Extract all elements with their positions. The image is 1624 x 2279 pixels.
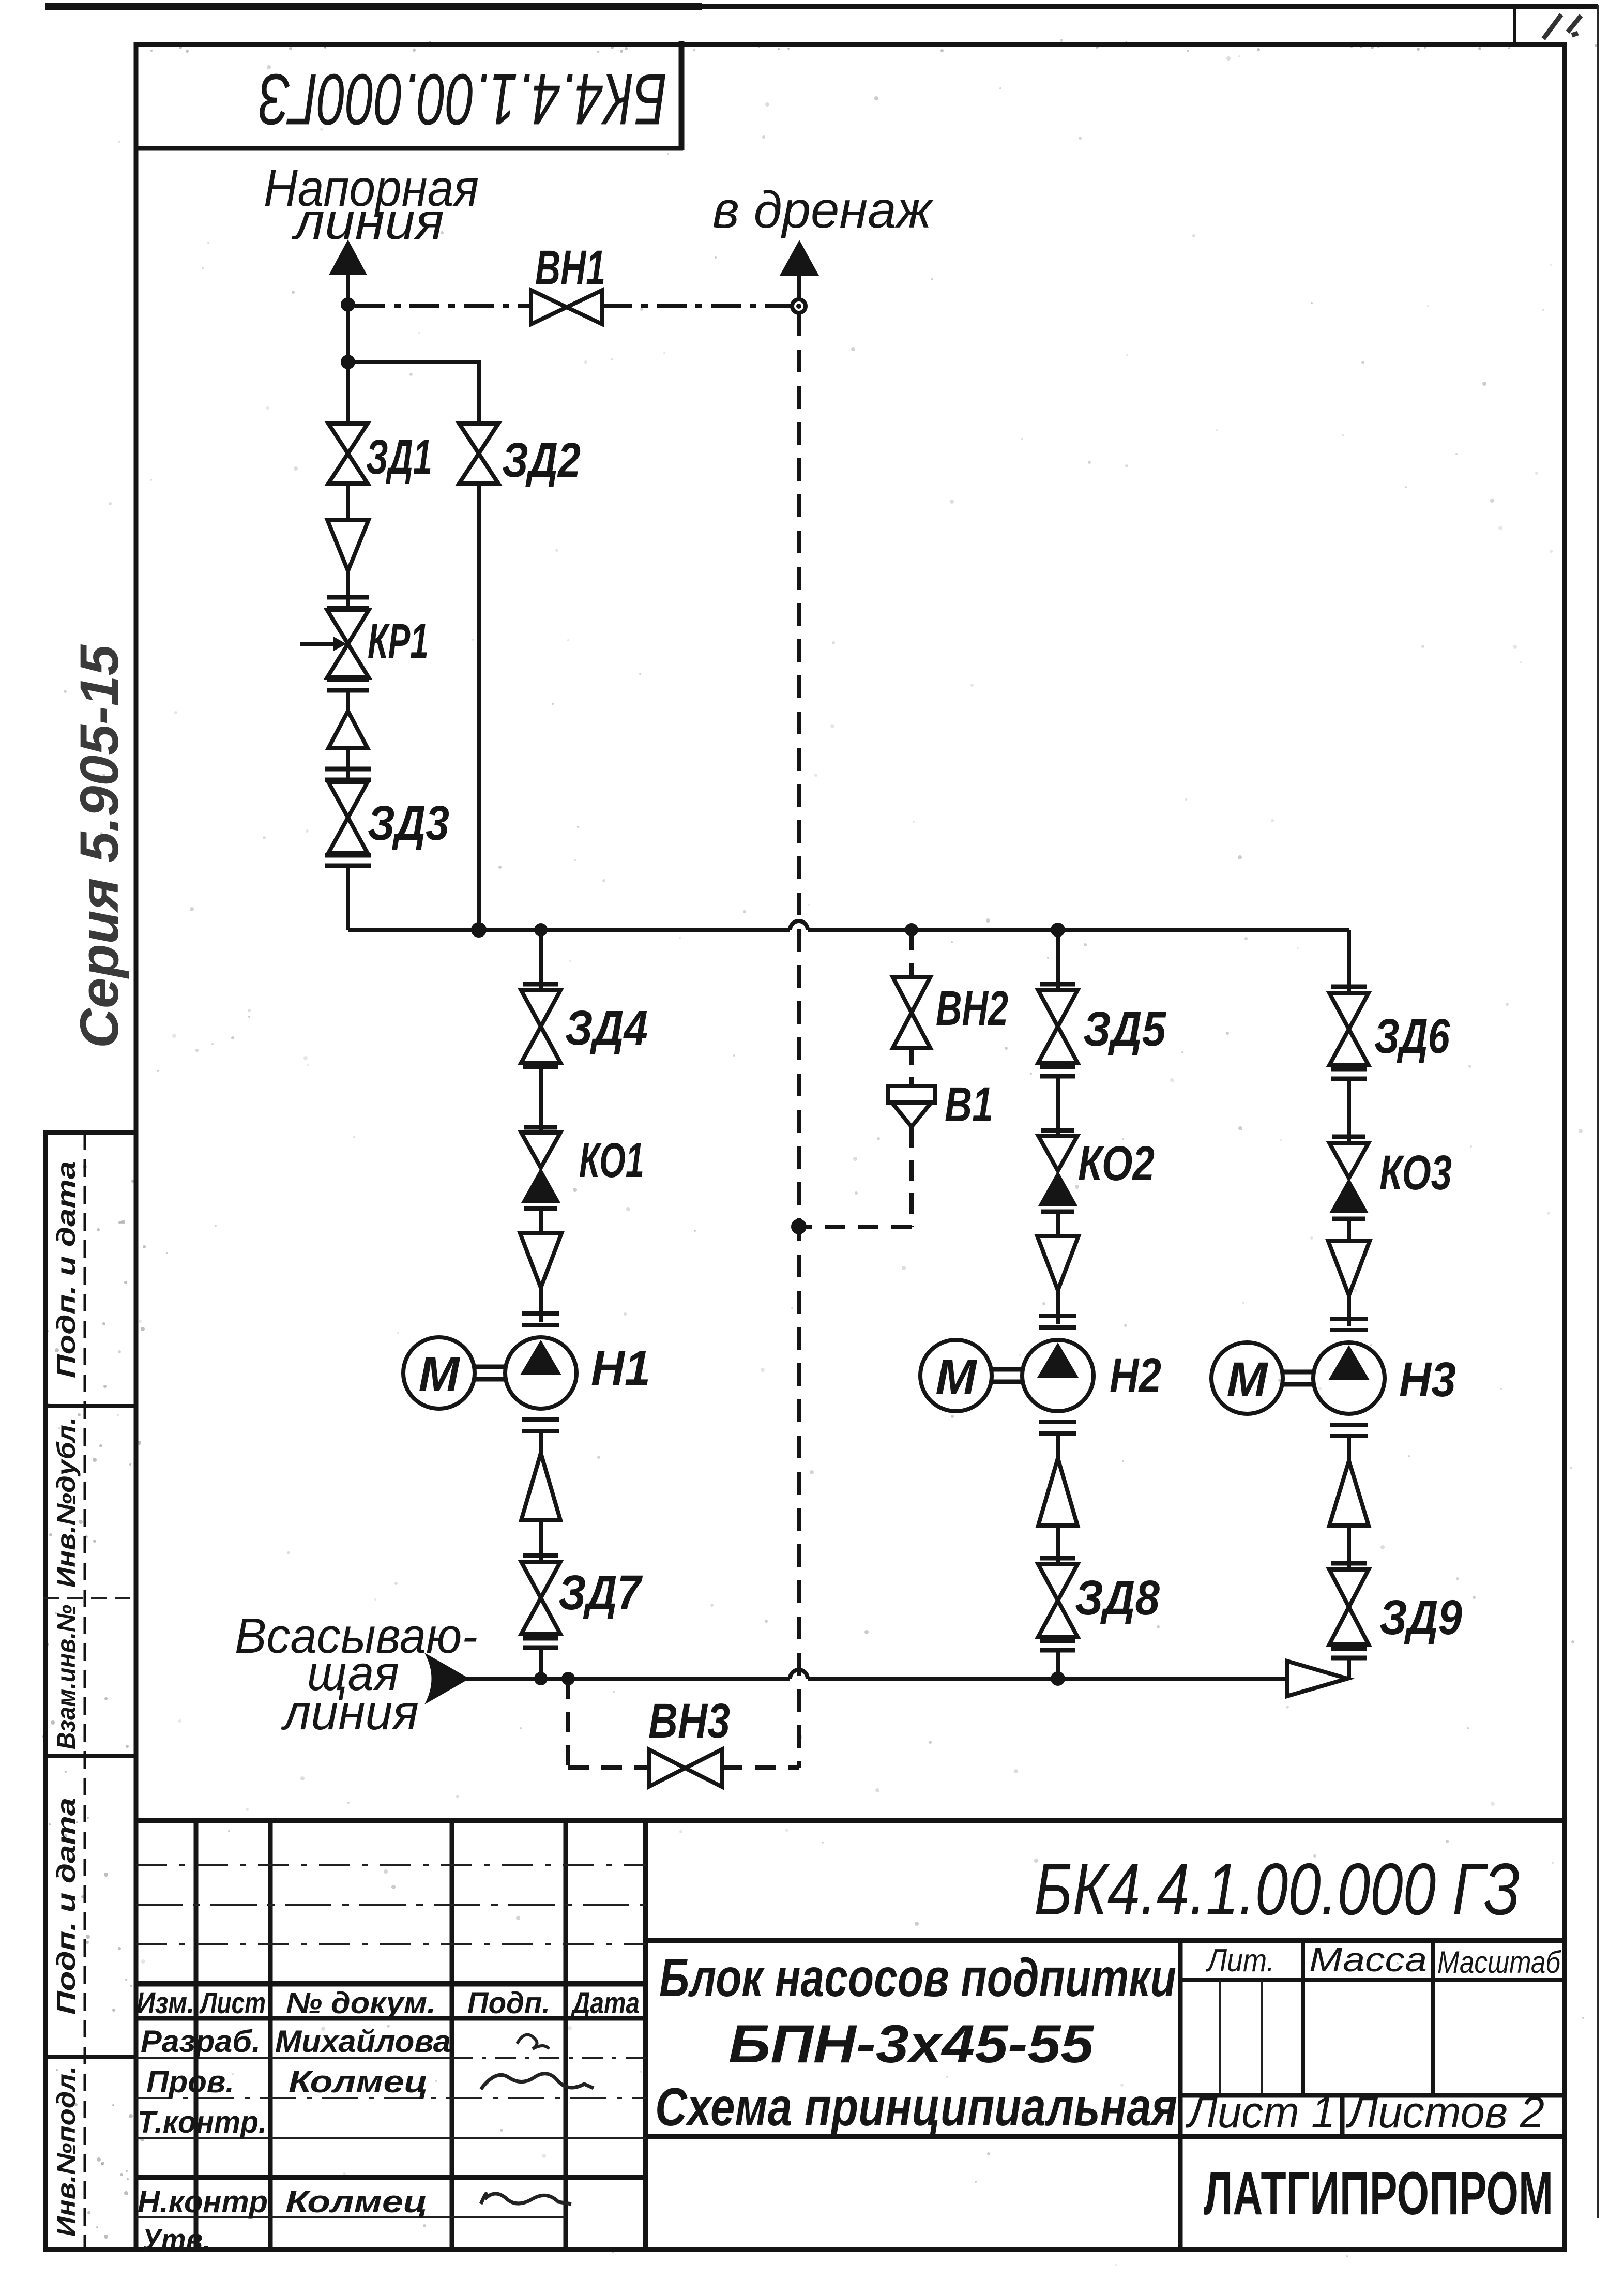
svg-text:КР1: КР1 bbox=[368, 614, 429, 669]
wire В1 down dashed bbox=[909, 1127, 914, 1227]
svg-text:Н3: Н3 bbox=[1399, 1352, 1456, 1407]
document number БК4.4.1.00.000 ГЗ bbox=[1034, 1848, 1520, 1930]
reducer cone up bbox=[328, 711, 368, 748]
label Напорная линия bbox=[264, 159, 479, 250]
arrow КР1 actuator bbox=[300, 637, 346, 651]
shaft M2-Н2 bbox=[992, 1369, 1022, 1382]
svg-text:ВН1: ВН1 bbox=[535, 240, 605, 295]
label КО2 bbox=[1078, 1136, 1155, 1191]
wire ЗД3 to header bbox=[346, 866, 350, 930]
valve КР1 flange bars top bbox=[327, 597, 369, 608]
valve ЗД9 bbox=[1329, 1569, 1369, 1644]
svg-text:ВН2: ВН2 bbox=[936, 981, 1008, 1036]
svg-text:Утв.: Утв. bbox=[142, 2223, 210, 2257]
valve ЗД3 flange bars top bbox=[325, 769, 371, 780]
svg-text:Масштаб: Масштаб bbox=[1437, 1945, 1561, 1980]
left margin stamp column bbox=[43, 1133, 136, 2250]
label Подп. и дата (upper) bbox=[52, 1161, 81, 1378]
wire ВН2 branch dashed bbox=[909, 930, 914, 977]
title block top line bbox=[136, 1818, 1565, 1823]
svg-text:Дата: Дата bbox=[570, 1986, 640, 2020]
label ВН3 bbox=[648, 1694, 730, 1748]
valve ЗД3 bbox=[328, 782, 368, 853]
svg-text:Пров.: Пров. bbox=[146, 2064, 234, 2099]
label ВН2 bbox=[936, 981, 1008, 1036]
revision table empty row lines bbox=[136, 1865, 646, 1944]
svg-text:Изм.: Изм. bbox=[136, 1986, 194, 2020]
pump Н1 bbox=[505, 1337, 576, 1409]
coupling bars above H1 bbox=[522, 1314, 559, 1325]
pump Н3 bbox=[1313, 1342, 1385, 1414]
label Всасывающая линия bbox=[235, 1608, 478, 1740]
valve ЗД6 flange bar top bbox=[1331, 985, 1367, 989]
svg-text:Взам.инв.№: Взам.инв.№ bbox=[52, 1605, 81, 1749]
valve ЗД9 flange bars bottom bbox=[1331, 1649, 1367, 1658]
valve КО3 flange bar top bbox=[1332, 1135, 1365, 1139]
row Н.контр bbox=[138, 2184, 428, 2219]
valve ЗД5 flange bar top bbox=[1040, 982, 1075, 987]
reducer cone down H1 bbox=[520, 1233, 561, 1288]
valve ЗД4 flange bar bottom bbox=[523, 1065, 558, 1069]
header Лит Масса Масштаб bbox=[1205, 1940, 1561, 1980]
valve ЗД7 flange bar top bbox=[523, 1553, 558, 1558]
svg-text:Лит.: Лит. bbox=[1205, 1943, 1274, 1979]
wire cone to pump H2 bbox=[1056, 1290, 1060, 1324]
label КО3 bbox=[1379, 1145, 1452, 1200]
svg-text:ЗД3: ЗД3 bbox=[368, 796, 449, 851]
row Разраб bbox=[141, 2024, 451, 2059]
label в дренаж bbox=[712, 181, 934, 239]
node suction/ВН3 bbox=[561, 1672, 575, 1685]
valve ВН3 bbox=[649, 1749, 722, 1787]
label ЗД1 bbox=[366, 430, 432, 485]
Лист row texts bbox=[1186, 2088, 1544, 2137]
valve ЗД8 flange bar top bbox=[1040, 1556, 1075, 1561]
wire cone to ЗД8 bbox=[1056, 1526, 1060, 1564]
shaft M1-Н1 bbox=[475, 1367, 505, 1379]
valve ЗД2 bbox=[459, 424, 498, 484]
label ЗД5 bbox=[1083, 1002, 1166, 1057]
valve КО2 check bbox=[1038, 1136, 1077, 1206]
wire ЗД4 to КО1 bbox=[539, 1067, 543, 1133]
coupling bars above H2 bbox=[1039, 1316, 1076, 1327]
svg-text:Масса: Масса bbox=[1309, 1940, 1427, 1979]
svg-text:Инв.№подл.: Инв.№подл. bbox=[52, 2066, 81, 2237]
wire ЗД2 branch horizontal bbox=[348, 362, 479, 424]
node header/ЗД2 bbox=[471, 922, 487, 938]
svg-text:БПН-3х45-55: БПН-3х45-55 bbox=[728, 2014, 1095, 2074]
wire H1 branch top bbox=[539, 930, 543, 990]
reducer cone up H3 bbox=[1329, 1461, 1369, 1526]
svg-text:БК4.4.1.00.000ГЗ: БК4.4.1.00.000ГЗ bbox=[259, 59, 667, 140]
arrow suction inlet bbox=[424, 1653, 469, 1704]
wire ЗД2 riser bbox=[477, 484, 481, 930]
node header/ЗД4 bbox=[534, 923, 548, 937]
title area lines bbox=[646, 1941, 1565, 2250]
wire reducer to ЗД3 bbox=[346, 748, 350, 782]
coupling bars below H3 bbox=[1330, 1425, 1368, 1436]
label ЗД6 bbox=[1374, 1009, 1450, 1064]
svg-text:В1: В1 bbox=[945, 1077, 993, 1132]
svg-text:М: М bbox=[418, 1347, 460, 1402]
revision table verticals bbox=[196, 1821, 646, 2250]
svg-text:Блок насосов подпитки: Блок насосов подпитки bbox=[659, 1948, 1176, 2008]
coupling bars above H3 bbox=[1330, 1319, 1368, 1330]
svg-text:№ докум.: № докум. bbox=[286, 1986, 436, 2020]
svg-text:ВН3: ВН3 bbox=[648, 1694, 730, 1748]
row Утв bbox=[142, 2223, 210, 2257]
svg-text:Лист 1: Лист 1 bbox=[1186, 2088, 1335, 2137]
label ВН1 bbox=[535, 240, 605, 295]
valve ЗД7 flange bars bottom bbox=[523, 1638, 558, 1648]
valve КО2 flange bar bottom bbox=[1041, 1210, 1074, 1214]
svg-text:ЗД9: ЗД9 bbox=[1379, 1590, 1462, 1645]
valve ЗД4 bbox=[521, 990, 560, 1063]
svg-text:Михайлова: Михайлова bbox=[275, 2024, 451, 2059]
node header/ВН2 bbox=[905, 923, 918, 937]
svg-text:ЗД7: ЗД7 bbox=[558, 1565, 643, 1620]
svg-text:Инв.№дубл.: Инв.№дубл. bbox=[52, 1417, 81, 1588]
wire suction line left bbox=[464, 1677, 790, 1681]
valve ЗД1 bbox=[328, 424, 368, 484]
svg-text:линия: линия bbox=[281, 1685, 419, 1740]
reducer cone down H3 bbox=[1328, 1241, 1370, 1295]
valve ЗД8 flange bars bottom bbox=[1040, 1641, 1075, 1650]
node ring on drain line bbox=[792, 274, 806, 313]
wire cone to ЗД9 bbox=[1347, 1526, 1351, 1569]
wire ВН3 bypass left dashed bbox=[568, 1765, 649, 1770]
coupling bars below H1 bbox=[522, 1420, 559, 1431]
label КО1 bbox=[579, 1133, 644, 1188]
stamp text (rotated 180) bbox=[259, 59, 667, 140]
label В1 bbox=[945, 1077, 993, 1132]
svg-text:БК4.4.1.00.000 ГЗ: БК4.4.1.00.000 ГЗ bbox=[1034, 1848, 1520, 1930]
row Пров bbox=[146, 2064, 428, 2099]
arrow drain line (up) bbox=[780, 240, 819, 276]
label Инв.№подл. bbox=[52, 2066, 81, 2237]
revision row lines bbox=[136, 2058, 646, 2217]
funnel В1 bbox=[888, 1086, 935, 1127]
svg-text:Лист: Лист bbox=[199, 1986, 266, 2020]
valve ЗД7 bbox=[521, 1562, 560, 1634]
wire КО3 to cone bbox=[1347, 1219, 1351, 1241]
svg-text:Колмец: Колмец bbox=[289, 2064, 428, 2099]
svg-text:Т.контр.: Т.контр. bbox=[138, 2105, 267, 2139]
valve ЗД3 flange bars bottom bbox=[325, 855, 371, 866]
valve КО1 check bbox=[521, 1133, 560, 1203]
svg-text:Листов 2: Листов 2 bbox=[1345, 2088, 1544, 2137]
valve ЗД5 flange bars bottom bbox=[1040, 1067, 1075, 1076]
wire КР1 to reducer bbox=[346, 690, 350, 711]
pump Н2 bbox=[1022, 1340, 1094, 1411]
svg-text:Подп. и дата: Подп. и дата bbox=[52, 1798, 81, 2015]
svg-text:ЛАТГИПРОПРОМ: ЛАТГИПРОПРОМ bbox=[1204, 2160, 1553, 2228]
label ЗД9 bbox=[1379, 1590, 1462, 1645]
valve ЗД6 flange bars bottom bbox=[1331, 1069, 1367, 1079]
signature Н.контр bbox=[481, 2194, 571, 2204]
revision header texts bbox=[136, 1986, 640, 2020]
label Взам. инв. № bbox=[52, 1605, 81, 1749]
wire riser top bbox=[346, 273, 350, 424]
svg-text:Н1: Н1 bbox=[591, 1341, 650, 1396]
wire discharge header right part bbox=[808, 928, 1349, 932]
node junction at ЗД2 tee bbox=[341, 355, 355, 369]
svg-text:Колмец: Колмец bbox=[285, 2184, 428, 2219]
reducer cone down bbox=[327, 520, 369, 571]
label Инв. № дубл. bbox=[52, 1417, 81, 1588]
pencil mark top right bbox=[1543, 14, 1581, 39]
coupling bars below H2 bbox=[1039, 1422, 1076, 1433]
svg-text:Подп. и дата: Подп. и дата bbox=[52, 1161, 81, 1378]
wire into КР1 bbox=[346, 571, 350, 610]
svg-text:ЗД2: ЗД2 bbox=[502, 433, 581, 488]
svg-text:линия: линия bbox=[292, 192, 444, 250]
svg-text:ЗД8: ЗД8 bbox=[1075, 1571, 1160, 1625]
wire КО2 to cone bbox=[1056, 1212, 1060, 1236]
reducer suction outlet (right) bbox=[1287, 1661, 1347, 1696]
valve ВН2 bbox=[893, 977, 930, 1048]
valve КО2 flange bar top bbox=[1041, 1128, 1074, 1133]
valve ЗД9 flange bar top bbox=[1331, 1561, 1367, 1566]
org name ЛАТГИПРОПРОМ bbox=[1204, 2160, 1553, 2228]
svg-text:Схема принципиальная: Схема принципиальная bbox=[655, 2077, 1177, 2137]
wire discharge header left part bbox=[348, 928, 790, 932]
wire header hop over drain bbox=[790, 921, 808, 930]
label Подп. и дата (lower) bbox=[52, 1798, 81, 2015]
valve КО3 check bbox=[1329, 1143, 1369, 1213]
node suction/ЗД7 bbox=[534, 1672, 548, 1685]
label ЗД3 bbox=[368, 796, 449, 851]
wire drain dashed vertical bbox=[797, 313, 801, 1768]
valve ЗД4 flange bar top bbox=[523, 982, 558, 987]
reducer cone down H2 bbox=[1037, 1236, 1079, 1290]
wire В1 to drain dashed bbox=[799, 1225, 912, 1229]
label ЗД7 bbox=[558, 1565, 643, 1620]
label ЗД4 bbox=[565, 1001, 648, 1055]
svg-text:ЗД1: ЗД1 bbox=[366, 430, 432, 485]
svg-text:Серия 5.905-15: Серия 5.905-15 bbox=[69, 644, 130, 1048]
valve КР1 bbox=[327, 610, 369, 677]
revision header row lines bbox=[136, 1984, 646, 2018]
svg-text:ЗД6: ЗД6 bbox=[1374, 1009, 1450, 1064]
wire КО1 to cone bbox=[539, 1209, 543, 1233]
svg-text:в дренаж: в дренаж bbox=[712, 181, 934, 239]
wire ВН1 dash-dot line left bbox=[355, 304, 531, 308]
valve КО3 flange bar bottom bbox=[1332, 1217, 1365, 1221]
fold mark line top bbox=[1513, 6, 1516, 46]
paper right edge line bbox=[1597, 5, 1599, 2218]
margin note Серия 5.905-15 bbox=[69, 644, 130, 1048]
valve КО1 flange bar bottom bbox=[524, 1206, 557, 1211]
svg-text:М: М bbox=[935, 1350, 977, 1405]
wire ВН3 bypass right dashed bbox=[722, 1765, 799, 1770]
svg-text:Н2: Н2 bbox=[1110, 1348, 1161, 1403]
wire ЗД9 to suction corner bbox=[1347, 1658, 1351, 1679]
wire cone to pump H1 bbox=[539, 1288, 543, 1322]
svg-text:КО1: КО1 bbox=[579, 1133, 644, 1188]
wire pump H1 down bbox=[539, 1431, 543, 1453]
valve ВН1 bbox=[531, 290, 602, 324]
svg-text:КО2: КО2 bbox=[1078, 1136, 1155, 1191]
svg-text:Разраб.: Разраб. bbox=[141, 2024, 261, 2059]
wire pump H3 down bbox=[1347, 1436, 1351, 1461]
row Т.контр bbox=[138, 2105, 267, 2139]
wire ВН2 to В1 dashed bbox=[909, 1048, 914, 1086]
label Н1 bbox=[591, 1341, 650, 1396]
label ЗД8 bbox=[1075, 1571, 1160, 1625]
label Н3 bbox=[1399, 1352, 1456, 1407]
node drain/В1 bbox=[791, 1219, 807, 1234]
arrow pressure line (up) bbox=[329, 239, 367, 275]
svg-text:Н.контр: Н.контр bbox=[138, 2184, 268, 2219]
wire pump H2 down bbox=[1056, 1433, 1060, 1458]
svg-text:ЗД4: ЗД4 bbox=[565, 1001, 648, 1055]
motor M3 bbox=[1211, 1342, 1283, 1414]
reducer cone up H1 bbox=[521, 1453, 560, 1520]
title text bbox=[655, 1948, 1177, 2137]
reducer cone up H2 bbox=[1038, 1458, 1077, 1526]
wire ВН3 bypass down dashed bbox=[566, 1679, 570, 1768]
svg-text:ЗД5: ЗД5 bbox=[1083, 1002, 1166, 1057]
svg-text:Подп.: Подп. bbox=[467, 1986, 550, 2020]
label Н2 bbox=[1110, 1348, 1161, 1403]
shaft M3-Н3 bbox=[1283, 1372, 1313, 1384]
paper top edge bbox=[45, 3, 1598, 10]
wire cone to pump H3 bbox=[1347, 1295, 1351, 1326]
wire header corner to ЗД6 bbox=[1347, 930, 1351, 993]
wire suction hop over drain bbox=[790, 1670, 808, 1679]
valve ЗД6 bbox=[1329, 993, 1369, 1065]
label ЗД2 bbox=[502, 433, 581, 488]
valve ЗД8 bbox=[1038, 1564, 1077, 1637]
motor M2 bbox=[920, 1340, 992, 1411]
wire between ЗД1 and reducer bbox=[346, 484, 350, 520]
motor M1 bbox=[403, 1337, 475, 1409]
valve КО1 flange bar top bbox=[524, 1125, 557, 1130]
label КР1 bbox=[368, 614, 429, 669]
node junction at drain tee bbox=[341, 297, 355, 312]
wire ВН1 dash-dot line right bbox=[602, 304, 792, 308]
signature Пров bbox=[481, 2074, 594, 2089]
wire cone to ЗД7 bbox=[539, 1520, 543, 1562]
wire H2 branch top bbox=[1056, 930, 1060, 990]
top-left stamp box bbox=[136, 41, 683, 150]
wire ЗД6 to КО3 bbox=[1347, 1079, 1351, 1143]
wire ЗД5 to КО2 bbox=[1056, 1076, 1060, 1136]
node header/ЗД5 bbox=[1051, 923, 1065, 937]
valve ЗД5 bbox=[1038, 990, 1077, 1063]
wire suction line right bbox=[808, 1677, 1287, 1681]
wire ЗД8 to suction bbox=[1056, 1650, 1060, 1679]
node suction/ЗД8 bbox=[1051, 1671, 1065, 1686]
valve КР1 flange bars bottom bbox=[327, 680, 369, 690]
signature Разраб bbox=[517, 2035, 549, 2049]
svg-text:КО3: КО3 bbox=[1379, 1145, 1452, 1200]
wire ЗД7 to suction bbox=[539, 1648, 543, 1679]
svg-text:М: М bbox=[1226, 1352, 1268, 1407]
